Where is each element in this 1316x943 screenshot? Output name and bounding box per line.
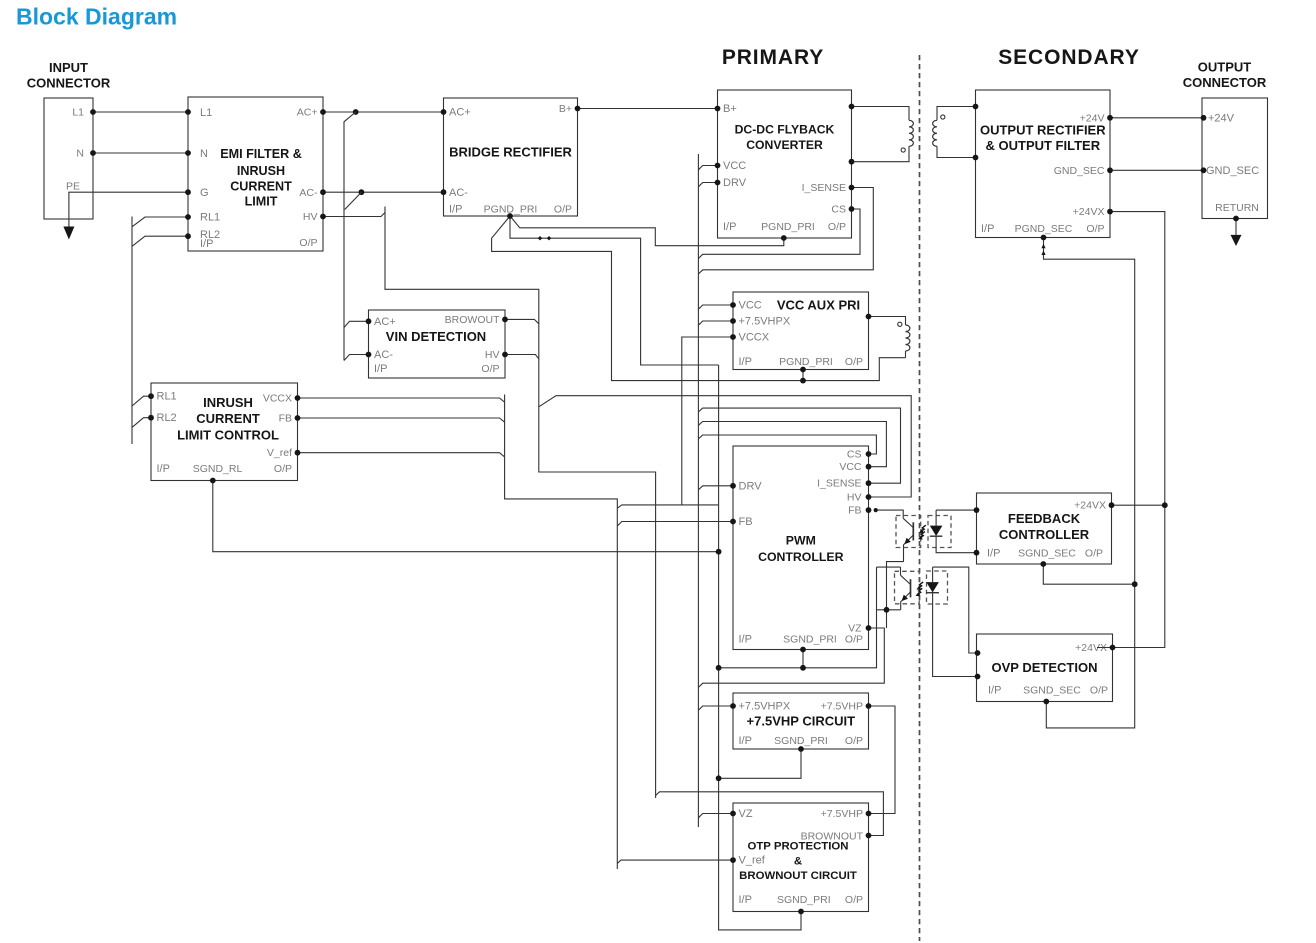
wire feedback controller SGND_SEC (1043, 564, 1134, 584)
svg-text:GND_SEC: GND_SEC (1054, 165, 1105, 177)
svg-text:LIMIT CONTROL: LIMIT CONTROL (177, 428, 279, 443)
wire +7.5VHP output to OTP +7.5VHP (869, 706, 896, 814)
optocoupler OC1 LED dashed box (928, 516, 951, 548)
svg-text:BROWNOUT CIRCUIT: BROWNOUT CIRCUIT (739, 870, 857, 882)
svg-text:AC-: AC- (299, 187, 318, 199)
block VIN detection U5 (369, 310, 506, 378)
wire primary ground bus x718.6 (719, 365, 801, 930)
svg-text:AC+: AC+ (297, 107, 318, 119)
OC1 LED D1 (935, 510, 937, 525)
svg-text:I_SENSE: I_SENSE (817, 478, 861, 490)
output rectifier pins (1107, 115, 1113, 121)
svg-text:SECONDARY: SECONDARY (998, 46, 1140, 69)
svg-text:O/P: O/P (845, 894, 863, 906)
svg-text:INRUSH: INRUSH (203, 395, 253, 410)
svg-text:PRIMARY: PRIMARY (722, 46, 824, 69)
node SGND_PRI rail junctions (800, 665, 806, 671)
svg-text:VCCX: VCCX (739, 332, 770, 344)
svg-text:RL1: RL1 (200, 212, 220, 224)
OTP protection pins (730, 811, 736, 817)
svg-text:HV: HV (847, 492, 862, 504)
svg-text:PE: PE (66, 181, 80, 193)
svg-text:O/P: O/P (1085, 547, 1103, 559)
svg-text:BROWOUT: BROWOUT (445, 314, 500, 326)
wire VCCX/FB/V_ref bus from inrush control (298, 398, 505, 402)
inrush control pins (148, 393, 154, 399)
wire SGND_RL from inrush control to primary ground bus (213, 481, 719, 552)
wire PWM SGND_PRI stub and rail (802, 650, 804, 668)
OC2 light arrows (918, 582, 923, 589)
input connector pins L1/N (90, 109, 96, 115)
block input connector (44, 98, 93, 219)
block output rectifier & output filter U10 (976, 90, 1111, 238)
wire PGND_SEC from output rectifier (1044, 238, 1135, 728)
svg-text:I/P: I/P (200, 238, 213, 250)
svg-text:I/P: I/P (981, 223, 994, 235)
svg-text:AC-: AC- (374, 349, 393, 361)
svg-text:SGND_RL: SGND_RL (193, 463, 243, 475)
bridge rectifier pins (441, 109, 447, 115)
svg-text:BRIDGE RECTIFIER: BRIDGE RECTIFIER (449, 145, 572, 160)
output connector pins (1201, 115, 1207, 121)
svg-text:DC-DC FLYBACK: DC-DC FLYBACK (735, 123, 835, 137)
wire AC+ : EMI to bridge rectifier (323, 111, 444, 113)
transformer T1 secondary winding (937, 107, 976, 121)
VCC AUX PRI pins (730, 302, 736, 308)
PWM controller pins (730, 483, 736, 489)
svg-text:SGND_PRI: SGND_PRI (783, 633, 837, 645)
optocoupler OC1 phototransistor dashed box (896, 516, 921, 548)
svg-text:VIN DETECTION: VIN DETECTION (386, 329, 486, 344)
svg-text:OUTPUT: OUTPUT (1198, 60, 1252, 75)
ground (input earth symbol) (63, 227, 74, 240)
svg-text:OUTPUT RECTIFIER: OUTPUT RECTIFIER (980, 123, 1106, 138)
svg-text:+7.5VHPX: +7.5VHPX (739, 316, 791, 328)
wire PGND_PRI rail from bridge rectifier bottom pin (492, 216, 906, 381)
svg-text:+7.5VHP: +7.5VHP (821, 701, 863, 713)
transformer T1 primary winding (852, 107, 910, 121)
svg-text:INPUT: INPUT (49, 60, 88, 75)
svg-text:L1: L1 (72, 107, 84, 119)
svg-text:I/P: I/P (987, 547, 1000, 559)
block feedback controller U11 (977, 493, 1112, 564)
wire N: input connector to EMI (93, 152, 188, 154)
svg-text:PWM: PWM (786, 534, 816, 548)
svg-text:HV: HV (303, 211, 318, 223)
svg-text:+24VX: +24VX (1073, 206, 1105, 218)
svg-text:I/P: I/P (449, 204, 462, 216)
junction marks on PGND_SEC stub (1041, 244, 1045, 249)
node PGND junction on rail (800, 378, 806, 384)
svg-text:VZ: VZ (739, 808, 753, 820)
svg-text:+24VX: +24VX (1074, 500, 1106, 512)
OC2 LED D2 (932, 567, 934, 582)
wire PE/G: EMI G pin to earth (69, 192, 188, 226)
wire BROWNOUT: bus down to OTP BROWNOUT (656, 792, 884, 836)
wire L1: input connector to EMI (93, 111, 188, 113)
svg-text:B+: B+ (559, 103, 572, 115)
OVP detection pins (1110, 645, 1116, 651)
wire +24V: output rectifier to output connector (1110, 117, 1204, 119)
svg-text:+24V: +24V (1080, 112, 1105, 124)
svg-text:O/P: O/P (845, 633, 863, 645)
svg-text:HV: HV (485, 349, 500, 361)
svg-text:CONTROLLER: CONTROLLER (999, 527, 1090, 542)
block OVP detection U12 (977, 634, 1113, 702)
block PWM controller U7 (733, 446, 869, 650)
svg-text:VCC: VCC (723, 160, 746, 172)
primary/secondary dashed separator line (919, 55, 921, 941)
svg-text:RL2: RL2 (157, 412, 177, 424)
svg-text:I/P: I/P (723, 221, 736, 233)
svg-text:I/P: I/P (374, 363, 387, 375)
svg-text:PGND_PRI: PGND_PRI (761, 221, 815, 233)
block OTP protection & brownout circuit U9 (733, 803, 869, 912)
svg-text:INRUSH: INRUSH (237, 164, 285, 178)
svg-text:CS: CS (847, 449, 862, 461)
svg-text:I/P: I/P (157, 463, 170, 475)
svg-text:CURRENT: CURRENT (196, 411, 260, 426)
node AC- junction (359, 189, 365, 195)
svg-text:SGND_PRI: SGND_PRI (777, 894, 831, 906)
svg-text:V_ref: V_ref (739, 855, 766, 867)
svg-text:CONVERTER: CONVERTER (746, 138, 823, 152)
svg-text:N: N (76, 148, 84, 160)
wire GND_SEC: output rectifier to output connector (1110, 169, 1204, 171)
svg-text:VCC AUX PRI: VCC AUX PRI (777, 298, 860, 313)
svg-text:GND_SEC: GND_SEC (1206, 165, 1259, 177)
svg-text:O/P: O/P (828, 221, 846, 233)
svg-text:LIMIT: LIMIT (245, 195, 278, 209)
svg-text:CONNECTOR: CONNECTOR (27, 76, 111, 91)
svg-text:FB: FB (848, 505, 861, 517)
svg-text:+24V: +24V (1208, 112, 1235, 124)
svg-text:DRV: DRV (739, 480, 763, 492)
svg-text:AC+: AC+ (449, 107, 471, 119)
wire RL bus (EMI RL1/RL2 to inrush control RL1/RL2) (131, 217, 133, 445)
svg-text:O/P: O/P (554, 204, 572, 216)
svg-text:I/P: I/P (988, 685, 1001, 697)
svg-text:FEEDBACK: FEEDBACK (1008, 511, 1081, 526)
block inrush current limit control U6 (151, 383, 298, 481)
wire HV net: EMI HV down, over to PWM HV riser (323, 213, 385, 217)
svg-text:RL1: RL1 (157, 391, 177, 403)
svg-text:& OUTPUT FILTER: & OUTPUT FILTER (986, 138, 1101, 153)
svg-text:O/P: O/P (845, 735, 863, 747)
svg-text:I/P: I/P (739, 356, 752, 368)
T1 secondary phase dot (941, 115, 945, 119)
svg-text:SGND_SEC: SGND_SEC (1023, 685, 1081, 697)
svg-text:Block Diagram: Block Diagram (16, 4, 177, 30)
block bridge rectifier U2 (444, 98, 578, 216)
svg-text:I/P: I/P (739, 735, 752, 747)
T1 primary phase dot (901, 148, 905, 152)
svg-text:DRV: DRV (723, 177, 747, 189)
svg-text:+7.5VHPX: +7.5VHPX (739, 701, 791, 713)
block VCC AUX PRI U4 (733, 292, 869, 370)
svg-text:L1: L1 (200, 107, 212, 119)
wire +7.5VHP circuit SGND_PRI stub (719, 749, 801, 778)
transformer T2 winding (VCC AUX PRI) (869, 317, 906, 326)
wire output connector RETURN to ground (1235, 219, 1237, 235)
feedback controller pins (1109, 502, 1115, 508)
svg-text:VCCX: VCCX (263, 393, 292, 405)
svg-text:I/P: I/P (739, 894, 752, 906)
svg-text:O/P: O/P (299, 237, 317, 249)
DC-DC flyback pins (715, 106, 721, 112)
wire AC- : EMI to bridge rectifier (323, 191, 444, 193)
svg-text:I/P: I/P (739, 633, 752, 645)
junction marks on PGND wire (538, 236, 543, 240)
block output connector (1202, 98, 1268, 219)
wire AC+/AC- taps down to VIN detection (344, 112, 356, 361)
svg-text:BROWNOUT: BROWNOUT (801, 831, 864, 843)
block +7.5VHP circuit U8 (733, 693, 869, 749)
svg-text:I_SENSE: I_SENSE (802, 182, 846, 194)
svg-text:RETURN: RETURN (1215, 202, 1259, 214)
OC1 phototransistor Q (876, 510, 904, 518)
svg-text:&: & (794, 856, 802, 868)
svg-text:O/P: O/P (1090, 685, 1108, 697)
T2 phase dot (898, 322, 902, 326)
svg-text:CURRENT: CURRENT (230, 180, 292, 194)
wire B+ : bridge rectifier to DC-DC flyback (578, 108, 718, 110)
svg-text:FB: FB (279, 413, 292, 425)
svg-text:EMI FILTER &: EMI FILTER & (220, 147, 302, 161)
svg-text:PGND_PRI: PGND_PRI (779, 356, 833, 368)
svg-text:O/P: O/P (845, 356, 863, 368)
OC2 phototransistor Q (900, 567, 902, 575)
svg-text:OVP DETECTION: OVP DETECTION (992, 660, 1098, 675)
+7.5VHP circuit pins (730, 703, 736, 709)
svg-text:VCC: VCC (839, 461, 862, 473)
svg-text:VCC: VCC (739, 300, 762, 312)
EMI filter pins (185, 109, 191, 115)
svg-text:CS: CS (831, 204, 846, 216)
svg-text:O/P: O/P (1086, 223, 1104, 235)
ground (output return symbol) (1231, 235, 1242, 246)
wire +24VX to feedback controller (1112, 504, 1165, 506)
wire vertical bus x698 with component taps (697, 154, 699, 827)
svg-text:SGND_PRI: SGND_PRI (774, 735, 828, 747)
svg-text:SGND_SEC: SGND_SEC (1018, 547, 1076, 559)
optocoupler OC2 LED dashed box (927, 571, 948, 604)
wire HV: VIN detection output onto bus (505, 355, 539, 359)
VIN detection pins (366, 318, 372, 324)
svg-text:FB: FB (739, 516, 753, 528)
svg-text:N: N (200, 148, 208, 160)
wire opto ground staircase (887, 562, 904, 610)
svg-text:PGND_SEC: PGND_SEC (1015, 223, 1073, 235)
svg-text:CONTROLLER: CONTROLLER (758, 550, 844, 564)
node AC+ junction (353, 109, 359, 115)
wire +24VX bus down right side (1097, 212, 1165, 648)
svg-text:V_ref: V_ref (267, 447, 292, 459)
svg-text:G: G (200, 187, 209, 199)
wire BROWOUT: VIN detection output onto bus (505, 319, 539, 323)
svg-text:O/P: O/P (481, 363, 499, 375)
svg-text:AC+: AC+ (374, 316, 396, 328)
svg-text:O/P: O/P (274, 463, 292, 475)
wire VCCX from VCC AUX down to distribution line (682, 337, 733, 505)
svg-text:CONNECTOR: CONNECTOR (1183, 75, 1267, 90)
optocoupler OC2 phototransistor dashed box (895, 571, 920, 604)
OC1 light arrows (921, 525, 926, 532)
svg-text:AC-: AC- (449, 187, 468, 199)
svg-text:+7.5VHP: +7.5VHP (821, 808, 863, 820)
svg-text:B+: B+ (723, 103, 737, 115)
svg-text:+7.5VHP CIRCUIT: +7.5VHP CIRCUIT (747, 714, 856, 729)
wire VCC AUX PGND_PRI stub (802, 370, 804, 381)
block EMI filter & inrush current limit U1 (188, 97, 323, 251)
block DC-DC flyback converter U3 (718, 90, 852, 238)
